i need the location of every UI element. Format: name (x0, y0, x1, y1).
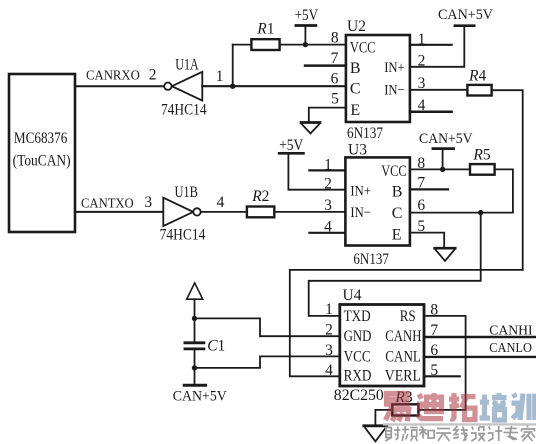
svg-text:1: 1 (324, 156, 332, 173)
svg-text:R5: R5 (472, 147, 490, 164)
svg-text:E: E (392, 226, 402, 243)
wire vertical junction to R1 (232, 45, 234, 87)
wire U4 pin6 CANL out (424, 356, 536, 358)
svg-text:IN+: IN+ (350, 183, 371, 199)
watermark char he (419, 427, 434, 439)
power CAN+5V stem (middle right) (442, 150, 444, 170)
svg-text:4: 4 (324, 219, 332, 236)
wire R3 left to ground (418, 409, 465, 411)
wire R4 net to U4 RXD (290, 270, 523, 376)
svg-text:B: B (350, 60, 361, 77)
svg-text:IN−: IN− (350, 205, 371, 221)
svg-text:RXD: RXD (344, 367, 372, 384)
svg-text:R1: R1 (256, 21, 274, 38)
svg-text:1: 1 (418, 31, 426, 48)
wire C1 bottom to U4 VCC pin3 (195, 356, 340, 368)
wire U4 pin7 CANH out (424, 336, 536, 338)
svg-text:IN+: IN+ (384, 60, 405, 76)
node junction +5V stem (303, 42, 308, 47)
svg-text:7: 7 (331, 50, 339, 67)
svg-text:6: 6 (430, 342, 438, 359)
svg-text:5: 5 (331, 91, 339, 108)
svg-text:1: 1 (216, 68, 224, 85)
U1A output bubble (164, 83, 171, 90)
resistor R1 (251, 39, 279, 50)
svg-text:U1A: U1A (175, 57, 199, 74)
watermark char xun (512, 394, 535, 421)
watermark char she2 (471, 427, 485, 442)
svg-text:6: 6 (331, 71, 339, 88)
power CAN+5V bar (bottom) (184, 384, 205, 387)
watermark char yi (386, 393, 409, 421)
watermark char zhuan (504, 426, 518, 440)
watermark underline (383, 423, 536, 425)
watermark char she (385, 427, 400, 442)
svg-text:U1B: U1B (174, 184, 198, 201)
watermark big text (blue part) (480, 393, 535, 420)
svg-text:E: E (350, 102, 360, 119)
svg-text:R4: R4 (468, 67, 486, 84)
wire U2 pin5 E to ground (309, 108, 346, 122)
wire to R1 left (233, 44, 252, 46)
svg-text:RS: RS (400, 308, 416, 325)
wire U3 pin5 E to ground (410, 233, 444, 248)
wire CANTXO net (MCU to U1B input) (75, 211, 163, 213)
power +5V stem (middle) to U3 pin2 (288, 154, 345, 189)
wire U2 pin4 stub (410, 110, 452, 113)
watermark char di (417, 393, 443, 419)
MCU MC68376 box (9, 74, 75, 232)
svg-text:(TouCAN): (TouCAN) (13, 153, 71, 170)
svg-text:VERL: VERL (385, 367, 421, 384)
svg-text:MC68376: MC68376 (14, 130, 68, 147)
node junction pin6 / TXD tap (478, 210, 483, 215)
svg-text:CANHI: CANHI (489, 323, 533, 338)
svg-text:C: C (350, 81, 361, 98)
watermark char tuo (449, 393, 476, 420)
wire R3 to ground stem (375, 410, 392, 425)
ground (U3 emitter) (435, 247, 456, 250)
wire U1B pin4 to R2 (201, 211, 247, 213)
svg-text:7: 7 (417, 175, 425, 192)
power arrow above C1 (187, 283, 203, 299)
svg-text:VCC: VCC (344, 348, 371, 365)
watermark small text RF and antenna design experts (385, 426, 535, 442)
svg-text:CANL: CANL (385, 348, 421, 365)
wire U3 pin1 stub (309, 169, 345, 171)
svg-text:2: 2 (325, 322, 333, 339)
svg-text:C: C (392, 205, 403, 222)
wire U2 pin3 to R4 (410, 89, 468, 91)
svg-text:IN−: IN− (384, 82, 405, 98)
wire U1A pin1 to U2 pin C (202, 85, 346, 87)
svg-text:8: 8 (430, 302, 438, 319)
power CAN+5V bar (middle right) (433, 147, 454, 150)
svg-text:GND: GND (344, 328, 372, 345)
svg-text:74HC14: 74HC14 (160, 227, 206, 244)
power CAN+5V bar (top right) (455, 24, 474, 27)
wire R4 to right vertical (492, 90, 523, 270)
wire U4 pin8 RS to R3 (424, 316, 466, 410)
ground (U2 emitter) (301, 121, 320, 124)
watermark char xian (453, 426, 468, 441)
wire C1 top to U4 GND pin2 (195, 318, 340, 336)
svg-text:6N137: 6N137 (353, 251, 389, 268)
capacitor C1 bottom plate (185, 347, 204, 350)
watermark char tian (436, 429, 451, 442)
svg-text:5: 5 (417, 218, 425, 235)
wire CANRXO net (MCU to U1A output bubble) (75, 85, 164, 87)
svg-text:CANLO: CANLO (489, 340, 532, 355)
svg-text:TXD: TXD (344, 308, 371, 325)
svg-text:CAN+5V: CAN+5V (173, 389, 228, 405)
svg-text:8: 8 (331, 29, 339, 46)
svg-text:4: 4 (325, 362, 333, 379)
svg-text:VCC: VCC (381, 163, 407, 180)
svg-text:3: 3 (324, 197, 332, 214)
wire U2 pin7 B stub (305, 64, 346, 67)
optocoupler U2 box (346, 35, 410, 122)
wire U3 pin7 stub (410, 188, 448, 190)
svg-text:CAN+5V: CAN+5V (419, 131, 473, 147)
svg-text:U4: U4 (343, 287, 362, 304)
svg-text:VCC: VCC (350, 40, 376, 57)
U1B output bubble (193, 208, 200, 215)
svg-text:4: 4 (217, 194, 225, 211)
wire U3 pin8 VCC to R5 (410, 168, 470, 170)
svg-text:2: 2 (149, 67, 157, 84)
watermark char jia (522, 426, 536, 442)
watermark char ji (488, 426, 503, 441)
svg-text:CANH: CANH (385, 328, 421, 345)
resistor R3 (392, 404, 418, 415)
node junction at U1A output (230, 84, 235, 89)
svg-text:+5V: +5V (295, 7, 319, 24)
wire R1 to U2 VCC pin8 (280, 44, 346, 46)
watermark char pin (402, 426, 418, 441)
svg-text:CANTXO: CANTXO (81, 196, 134, 211)
optocoupler U3 box (345, 157, 410, 245)
svg-text:74HC14: 74HC14 (161, 102, 207, 119)
node junction C1 bottom (192, 365, 197, 370)
resistor R5 (470, 164, 495, 175)
wire U2 pin2 to CAN+5V (410, 27, 464, 67)
op-amp U1B inverter triangle (163, 198, 193, 226)
power +5V stem (top) (304, 26, 306, 45)
capacitor C1 top plate (185, 341, 204, 344)
watermark big text (red part) (386, 393, 476, 421)
resistor R2 (247, 207, 274, 218)
wire U2 pin1 stub (410, 44, 452, 46)
node junction CAN+5V / pin8 (440, 167, 445, 172)
svg-text:6: 6 (417, 197, 425, 214)
wire U4 pin5 VERL stub (424, 375, 460, 377)
svg-text:3: 3 (144, 194, 152, 211)
svg-text:B: B (392, 184, 403, 201)
wire C1 bottom to CAN+5V bar (194, 349, 196, 385)
svg-text:8: 8 (417, 155, 425, 172)
svg-text:82C250: 82C250 (334, 387, 384, 404)
svg-text:4: 4 (418, 97, 426, 114)
svg-text:5: 5 (430, 362, 438, 379)
svg-text:1: 1 (325, 301, 333, 318)
svg-text:U3: U3 (348, 141, 367, 158)
svg-text:CAN+5V: CAN+5V (438, 7, 494, 23)
svg-text:3: 3 (325, 342, 333, 359)
resistor R4 (467, 85, 491, 96)
transceiver U4 box (340, 305, 424, 387)
svg-text:+5V: +5V (279, 137, 304, 154)
svg-text:2: 2 (324, 176, 332, 193)
power +5V bar (middle) (279, 152, 303, 155)
svg-text:CANRXO: CANRXO (86, 68, 140, 83)
wire U3 C to U4 TXD (309, 213, 481, 316)
power +5V bar (top) (296, 24, 316, 27)
wire R5 right to U3 pin6 row (410, 169, 513, 212)
wire arrow to C1 top plate (194, 299, 196, 342)
ground (R3) (364, 424, 387, 427)
node junction C1 top (192, 316, 197, 321)
op-amp U1A inverter triangle (172, 72, 202, 101)
wire R2 to U3 pin3 (274, 211, 345, 213)
svg-text:2: 2 (418, 52, 426, 69)
watermark char pei (480, 393, 507, 420)
svg-text:3: 3 (418, 75, 426, 92)
svg-text:6N137: 6N137 (347, 125, 383, 142)
svg-text:R2: R2 (251, 188, 269, 205)
wire U3 pin4 stub (309, 232, 345, 234)
svg-text:C1: C1 (207, 337, 225, 354)
svg-text:U2: U2 (347, 18, 366, 35)
svg-text:7: 7 (430, 322, 438, 339)
